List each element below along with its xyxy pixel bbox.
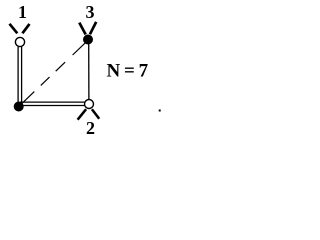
stray dot at right edge	[159, 110, 161, 112]
double edge left (line b) between node 1 and node 4	[21, 47, 23, 104]
svg-text:3: 3	[86, 2, 95, 22]
dashed edge diagonal between node 4 and node 3	[22, 42, 87, 104]
external leg (left) of node 1	[10, 24, 18, 34]
node 3 (filled vertex)	[83, 35, 93, 45]
svg-text:1: 1	[18, 2, 27, 22]
double edge left (line a) between node 1 and node 4	[17, 47, 19, 104]
svg-text:N = 7: N = 7	[107, 60, 149, 81]
external leg (right) of node 2	[92, 109, 99, 119]
external leg (right) of node 3	[90, 22, 96, 34]
double edge bottom (line a) between node 4 and node 2	[20, 101, 86, 103]
double edge bottom (line b) between node 4 and node 2	[20, 105, 86, 107]
external leg (right) of node 1	[22, 24, 29, 33]
node 4 (filled vertex, bottom-left)	[14, 102, 24, 112]
external leg (left) of node 2	[78, 109, 87, 120]
external leg (left) of node 3	[79, 23, 85, 35]
svg-text:2: 2	[86, 118, 95, 138]
node 2 (open vertex)	[85, 100, 94, 109]
single edge right between node 3 and node 2	[88, 42, 90, 101]
node 1 (open vertex)	[15, 37, 24, 46]
